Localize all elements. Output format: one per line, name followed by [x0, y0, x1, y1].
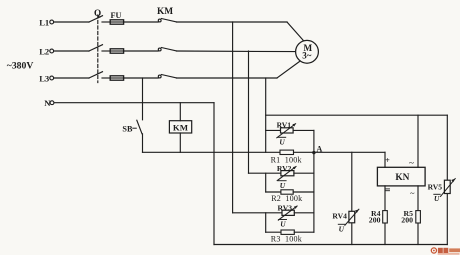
resistor R1 body: [280, 150, 294, 154]
svg-text:U: U: [280, 220, 286, 229]
svg-text:~: ~: [410, 188, 415, 198]
varistor RV4 body: [349, 211, 355, 223]
wire SB bottom down: [142, 134, 144, 153]
wire Q to FU row 2: [102, 50, 110, 52]
varistor RV3 U-arrow overbar: [279, 219, 287, 221]
switch Q gang dashed link: [97, 15, 99, 83]
svg-text:U: U: [434, 194, 440, 203]
wire N tap down to coil KM: [179, 103, 181, 121]
wire KN minus lead down through R4: [384, 186, 386, 245]
wire R3 row right lead: [294, 231, 314, 233]
fuse FU row 3: [110, 76, 123, 80]
varistor RV3 body: [282, 210, 294, 215]
wire RV2 row left lead: [249, 172, 281, 174]
resistor R2 body: [281, 190, 293, 194]
wire R2 row left lead: [266, 191, 281, 193]
svg-text:R3 100k: R3 100k: [271, 235, 303, 244]
varistor RV3 arrow: [278, 206, 297, 220]
wire bank3 left link down: [265, 213, 267, 232]
svg-text:A: A: [316, 145, 322, 154]
contactor coil KM box: [169, 121, 191, 133]
svg-text:RV5: RV5: [428, 182, 443, 191]
watermark logo: [431, 248, 460, 255]
switch Q pole 1 blade: [89, 16, 103, 22]
svg-text:~380V: ~380V: [7, 61, 34, 72]
wire drop from L1 to RV3 bank: [232, 22, 234, 213]
varistor RV2 body: [281, 171, 294, 176]
varistor RV5 U-arrow overbar: [434, 193, 440, 195]
KN minus terminal mark: [386, 189, 390, 191]
svg-text:Q: Q: [94, 8, 101, 18]
svg-text:SB: SB: [122, 125, 133, 134]
svg-text:U: U: [339, 224, 345, 233]
wire coil KM down to bottom rail: [179, 133, 181, 152]
button SB blade: [137, 120, 142, 134]
varistor RV1 body: [281, 128, 294, 133]
wire RV3 row right lead: [294, 212, 314, 214]
wire drop from L2 to RV2 bank: [248, 51, 250, 173]
svg-text:200: 200: [369, 216, 381, 225]
svg-text:RV2: RV2: [277, 164, 292, 173]
wire FU to KM contact row 2: [125, 50, 159, 52]
svg-text:U: U: [279, 137, 285, 146]
wire drop from L3 to R1 bank: [265, 78, 267, 152]
node A junction dot: [312, 151, 315, 154]
wire KN ac lead down from feed: [417, 115, 419, 167]
contactor KM main contact 1: [158, 19, 176, 22]
varistor RV5 arrow: [441, 179, 456, 197]
varistor RV4 U-arrow overbar: [338, 223, 344, 225]
resistor R4 body: [383, 211, 388, 223]
varistor RV5 body: [444, 180, 450, 193]
svg-text:3~: 3~: [302, 50, 312, 60]
contactor KM main contact 3: [158, 75, 176, 78]
svg-text:KN: KN: [395, 173, 409, 183]
varistor RV2 arrow: [277, 166, 296, 180]
wire right bank bus down from RV1 to R3: [313, 130, 315, 232]
resistor R3 body: [281, 230, 294, 234]
svg-text:R2 100k: R2 100k: [271, 194, 303, 203]
wire KM to motor row 2: [177, 50, 296, 53]
wire RV5 branch right edge: [446, 115, 448, 244]
varistor RV4 arrow: [345, 209, 359, 225]
wire Q to FU row 1: [102, 21, 110, 23]
motor M 3~: [296, 40, 319, 63]
resistor R5 body: [416, 211, 421, 223]
varistor RV1 U-arrow overbar: [278, 136, 286, 138]
svg-text:RV4: RV4: [332, 212, 347, 221]
wire R2 row right lead: [293, 191, 314, 193]
wire upper feed to RV5 / KN ac side: [266, 114, 448, 116]
svg-text:FU: FU: [111, 11, 122, 20]
wire N down right side of control: [213, 103, 215, 245]
node L2 terminal circle: [50, 49, 54, 53]
wire L3 tap down to button SB: [142, 78, 144, 120]
wire KN ac2 lead down through R5: [417, 186, 419, 245]
svg-text:~: ~: [409, 159, 414, 169]
node L3 terminal circle: [50, 76, 54, 80]
svg-text:KM: KM: [157, 7, 173, 17]
wire R1 to node A: [294, 151, 314, 153]
svg-text:L2: L2: [39, 46, 49, 56]
varistor RV1 arrow: [277, 123, 296, 137]
varistor RV2 U-arrow overbar: [278, 180, 286, 182]
wire node A to KN plus: [314, 151, 385, 153]
svg-text:RV1: RV1: [277, 121, 292, 130]
svg-text:U: U: [280, 181, 286, 190]
wire N row: [54, 102, 214, 104]
wire L3 to switch Q: [54, 77, 89, 79]
wire L2 to switch Q: [54, 50, 89, 52]
switch Q pole 2 blade: [89, 45, 103, 51]
node N terminal circle: [50, 101, 54, 105]
wire bottom bus: [214, 244, 447, 246]
wire RV1 row left lead: [266, 129, 281, 131]
node L1 terminal circle: [50, 20, 54, 24]
svg-text:RV3: RV3: [278, 203, 293, 212]
wire RV3 row left lead: [233, 212, 282, 214]
svg-text:L1: L1: [39, 17, 49, 27]
wire diagonal into motor bottom: [277, 62, 299, 78]
svg-text:L3: L3: [39, 73, 49, 83]
wire RV1 row right lead: [293, 129, 314, 131]
wire KN plus lead down: [384, 152, 386, 167]
switch Q pole 3 blade: [89, 72, 103, 78]
relay KN box: [377, 167, 425, 186]
wire control bottom rail to R1: [143, 151, 281, 153]
wire FU to KM contact row 3: [125, 77, 159, 79]
fuse FU row 1: [110, 20, 123, 24]
wire RV2 row right lead: [294, 172, 314, 174]
wire R3 row left lead: [266, 231, 281, 233]
svg-text:KM: KM: [173, 122, 189, 132]
wire FU to KM contact row 1: [125, 21, 159, 23]
wire L1 to switch Q: [54, 21, 89, 23]
wire KM to motor row 1: [177, 21, 288, 23]
wire KM to motor row 3: [177, 77, 278, 79]
wire Q to FU row 3: [102, 77, 110, 79]
svg-text:200: 200: [401, 216, 413, 225]
contactor KM main contact 2: [158, 48, 176, 51]
svg-text:+: +: [385, 156, 390, 165]
button SB actuator dash: [133, 127, 137, 129]
wire RV4 branch from node A row: [351, 152, 353, 244]
wire bank2 left link down: [265, 173, 267, 192]
svg-text:N: N: [44, 98, 51, 108]
wire diagonal into motor top: [287, 22, 304, 41]
fuse FU row 2: [110, 49, 123, 53]
